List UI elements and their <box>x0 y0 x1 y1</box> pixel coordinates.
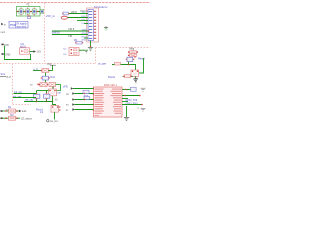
connector pins <box>94 11 96 39</box>
regulator U2 box <box>20 48 30 54</box>
wire right y89.5 <box>122 89 136 91</box>
wire bend down to Q1 <box>53 102 56 106</box>
port arrow left <box>1 23 3 26</box>
ground Q2 <box>133 78 138 80</box>
netflag out <box>34 50 36 53</box>
test pad oval <box>61 16 67 19</box>
svg-text:Rnet1: Rnet1 <box>108 75 115 79</box>
sheet divider horizontal y63 <box>0 63 96 65</box>
cap + ground right <box>141 87 146 89</box>
svg-text:ch_pwr: ch_pwr <box>98 63 106 66</box>
port VIN <box>2 44 4 46</box>
svg-text:out: out <box>58 92 62 95</box>
svg-text:LD_status: LD_status <box>21 117 33 120</box>
svg-text:5V0: 5V0 <box>5 44 10 47</box>
svg-text:+5V_in: +5V_in <box>46 14 56 18</box>
net labels at connector <box>82 12 88 42</box>
port GND lower <box>2 53 4 55</box>
wire through filter <box>17 11 44 13</box>
stubs caps to wire <box>36 99 38 101</box>
connector pin names <box>89 11 93 39</box>
svg-text:Reset: Reset <box>138 56 145 60</box>
svg-text:B.47: B.47 <box>7 77 12 79</box>
wire C8 down <box>45 80 47 85</box>
resistor R8b <box>49 82 56 86</box>
power flag right of connector <box>104 27 108 29</box>
sheet divider horizontal y104 <box>13 104 32 106</box>
svg-text:ldo33: ldo33 <box>20 47 26 49</box>
capacitor C8 <box>42 76 48 80</box>
svg-text:rst: rst <box>66 93 69 96</box>
row2 <box>1 117 3 119</box>
wire down to Q3 <box>52 87 54 89</box>
IC right pin cluster upper <box>111 89 122 114</box>
svg-text:PWR: PWR <box>10 24 16 27</box>
wire left with resistor <box>112 64 129 66</box>
wire J1 pin4 <box>77 20 88 22</box>
IC left pin names <box>95 89 105 116</box>
wire J1 pin5 <box>84 23 88 25</box>
svg-text:Rsns1: Rsns1 <box>36 109 44 112</box>
sheet divider vertical x44 <box>44 3 46 64</box>
wire y90.5 horizontal <box>37 90 49 92</box>
capacitor C2 <box>32 9 36 14</box>
resistor R8 <box>40 82 47 86</box>
info table box <box>9 22 28 29</box>
junction dots filter <box>17 11 19 13</box>
wire out <box>79 49 85 51</box>
wire down to C8 <box>45 73 47 77</box>
svg-text:GND: GND <box>5 54 11 57</box>
wire Q3 emitter down <box>52 96 54 102</box>
pin wire y110 <box>75 109 94 111</box>
ground bottom right of IC <box>124 117 129 119</box>
IC pin dots left <box>93 88 94 111</box>
pin wire y94 <box>75 93 94 95</box>
svg-text:Rn2: Rn2 <box>51 76 56 79</box>
capacitor C9 <box>34 94 40 98</box>
pin marks bottom row <box>21 14 22 15</box>
wire down from pin to ground <box>126 106 128 117</box>
part on wire y94 <box>83 90 89 93</box>
IC body <box>94 87 123 117</box>
wires below U4 <box>129 62 136 70</box>
svg-text:U2: U2 <box>21 42 25 46</box>
ferrite bead FB1 <box>19 9 23 14</box>
wire right y95.5 <box>122 95 140 97</box>
transistor Q1 <box>51 106 59 113</box>
port circle bottom <box>47 120 49 122</box>
pin wire y104 <box>75 104 94 106</box>
sheet divider vertical x12 <box>12 64 14 105</box>
ground symbol under J1 <box>88 47 93 49</box>
svg-text:SCL: SCL <box>1 73 6 76</box>
wire J1 pin3 with pad <box>68 17 89 19</box>
wire J1 pin8 <box>52 34 88 36</box>
svg-text:led1: led1 <box>22 110 27 113</box>
capacitor C1 <box>26 9 30 14</box>
svg-text:tx|: tx| <box>30 84 33 87</box>
module box filter <box>17 7 41 17</box>
wire J1 pin7 <box>52 30 88 32</box>
wire right y104.5 with junction <box>122 104 142 106</box>
svg-text:U?: U? <box>26 2 30 6</box>
wire into R7 <box>33 70 42 72</box>
sheet divider vertical x95 <box>95 48 97 64</box>
svg-text:3V3: 3V3 <box>37 51 42 54</box>
part U4 <box>127 57 133 61</box>
sheet divider horizontal y47 <box>96 47 151 49</box>
wire right y98.5 <box>122 98 128 100</box>
wire Q2 down <box>135 76 137 78</box>
wire into filter <box>17 11 20 13</box>
svg-text:13B: 13B <box>68 36 73 38</box>
vertical right wire <box>139 58 144 73</box>
power flag right <box>134 77 137 79</box>
pin wire y88 <box>73 88 94 90</box>
connector body <box>88 10 94 41</box>
svg-text:net1: net1 <box>1 31 6 34</box>
resistor R7 <box>42 68 49 72</box>
wire J1 pin2 <box>69 13 89 15</box>
wire R7 to flag stub <box>49 70 53 72</box>
resistor R5 on wire <box>63 12 68 15</box>
wire J1 pin9 <box>84 37 88 39</box>
diode D1 <box>130 51 137 54</box>
box U3 <box>69 48 79 56</box>
wire J1 pin10 down to ground <box>90 41 92 47</box>
wire U2 out <box>30 51 34 53</box>
wire Q1 down <box>54 112 56 119</box>
row1: port,resistor,flag <box>1 110 3 112</box>
wire right y101.5 <box>122 101 128 103</box>
pin wire y99 <box>75 99 94 101</box>
svg-text:sw_out: sw_out <box>50 120 58 123</box>
svg-text:input sect: input sect <box>16 25 26 28</box>
wire main y101.5 <box>24 101 53 103</box>
svg-text:VBat: VBat <box>129 47 135 50</box>
wire from port down and along bottom <box>5 46 31 60</box>
transistor Q2 <box>131 70 139 76</box>
svg-text:ESP-12F-x: ESP-12F-x <box>104 83 118 87</box>
resistor R9 <box>123 75 134 77</box>
transistor Q3 <box>49 89 57 96</box>
svg-text:xPD: xPD <box>63 86 68 89</box>
pin marks top row <box>21 8 22 9</box>
svg-text:GND: GND <box>82 40 87 42</box>
ground flag <box>85 49 89 51</box>
capacitor C10 <box>44 94 50 98</box>
capacitor below filter <box>28 16 31 18</box>
connector module box <box>87 8 99 42</box>
svg-text:13B B: 13B B <box>71 12 78 14</box>
inductor L1 right of box <box>40 10 43 14</box>
sheet divider top <box>0 2 150 4</box>
